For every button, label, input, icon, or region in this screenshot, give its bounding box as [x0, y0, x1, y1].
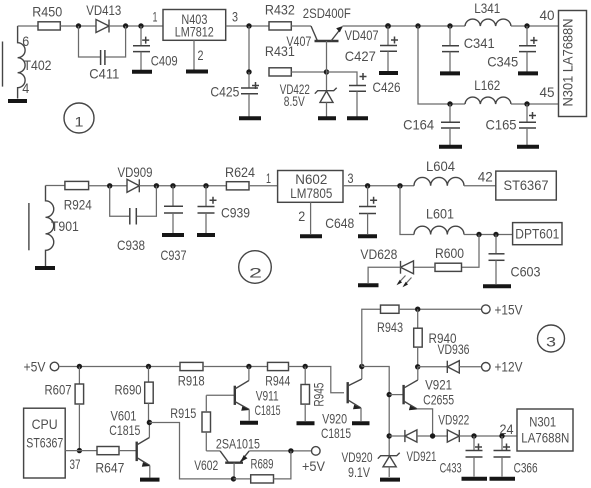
terminal +5V (left)	[50, 362, 59, 371]
svg-text:C409: C409	[151, 53, 178, 69]
svg-text:R944: R944	[265, 372, 290, 388]
wire junction to VD936	[418, 366, 448, 368]
node (V920 collector junction)	[359, 364, 364, 369]
node (V911 collector junction)	[246, 364, 251, 369]
capacitor C341	[442, 26, 459, 72]
section marker 1	[64, 103, 94, 133]
wire VD628 to ground	[368, 267, 400, 283]
svg-text:VD920: VD920	[342, 449, 373, 465]
svg-text:1: 1	[75, 114, 84, 130]
wire V407 emitter rail to N301 pin40	[343, 25, 466, 27]
resistor R944	[268, 362, 289, 370]
ground (C426)	[347, 116, 368, 120]
svg-text:1: 1	[266, 170, 271, 186]
svg-text:R607: R607	[45, 382, 72, 398]
terminal +15V	[482, 305, 491, 314]
svg-text:VD922: VD922	[438, 412, 469, 428]
node (junction C938 left)	[107, 183, 112, 188]
wire L162 to N301 pin45	[511, 103, 559, 105]
svg-text:9.1V: 9.1V	[348, 464, 370, 480]
svg-text:6: 6	[22, 33, 29, 49]
inductor L162	[465, 97, 511, 104]
capacitor C939 (electrolytic)	[198, 186, 217, 233]
svg-text:C425: C425	[210, 83, 239, 99]
node (C366 junction)	[499, 433, 504, 438]
capacitor C411 (parallel with VD413)	[79, 26, 126, 65]
svg-text:C603: C603	[511, 263, 541, 279]
transformer T901	[29, 186, 54, 267]
svg-text:R924: R924	[64, 196, 92, 212]
LED VD628	[397, 261, 414, 287]
capacitor C164	[441, 104, 460, 145]
svg-text:2: 2	[198, 47, 204, 63]
svg-text:VD407: VD407	[345, 27, 379, 43]
transistor V602 2SA1015	[220, 451, 249, 479]
diode VD921	[405, 430, 417, 442]
node (junction C938 right)	[154, 183, 159, 188]
svg-text:C939: C939	[221, 205, 250, 221]
svg-text:2SD400F: 2SD400F	[303, 5, 351, 21]
svg-text:3: 3	[546, 333, 556, 349]
node (junction C937)	[170, 183, 175, 188]
svg-text:VD628: VD628	[360, 246, 397, 262]
capacitor C409 (electrolytic)	[133, 26, 150, 70]
ground (C603)	[483, 284, 511, 288]
svg-text:CPU: CPU	[32, 416, 58, 432]
capacitor C425 (electrolytic)	[241, 72, 259, 117]
ground (VD422)	[318, 116, 336, 120]
ground (C165)	[517, 145, 539, 149]
svg-text:L162: L162	[474, 77, 500, 93]
ground (C425)	[239, 116, 261, 120]
svg-text:R450: R450	[32, 3, 62, 19]
inductor L604	[414, 177, 464, 185]
wire base junction to V921	[389, 394, 403, 396]
svg-text:24: 24	[500, 421, 514, 437]
resistor R607	[75, 367, 84, 451]
svg-text:R915: R915	[170, 405, 196, 421]
resistor R940	[414, 309, 423, 367]
block DPT601	[513, 223, 562, 245]
IC N301 LA7688N (bottom right)	[517, 409, 573, 451]
transformer T402	[3, 26, 26, 99]
capacitor C165 (electrolytic)	[519, 104, 536, 145]
node (junction R431/C425)	[246, 69, 251, 74]
svg-text:C1815: C1815	[255, 402, 281, 418]
ground (VD920)	[380, 478, 400, 482]
svg-text:V911: V911	[256, 387, 279, 403]
node (C165 junction)	[524, 101, 529, 106]
capacitor C345 (electrolytic)	[519, 26, 537, 72]
wire V602 emitter to +5V terminal	[249, 450, 311, 452]
svg-text:R690: R690	[115, 381, 142, 397]
svg-text:R918: R918	[178, 372, 205, 388]
wire VD413 to N403 pin1	[109, 25, 163, 27]
node (V407 base / VD422 / C426)	[324, 69, 329, 74]
transistor V911 C1815	[235, 367, 250, 421]
svg-text:C164: C164	[403, 116, 434, 132]
ground (T402)	[8, 99, 27, 103]
wire branch down to L162	[418, 26, 465, 104]
node (V921 base junction)	[387, 392, 392, 397]
svg-text:37: 37	[70, 456, 81, 472]
svg-text:C411: C411	[89, 66, 119, 82]
capacitor C648 (electrolytic)	[359, 186, 377, 234]
resistor R690	[145, 367, 154, 423]
svg-text:C1815: C1815	[109, 422, 140, 438]
wire node down to R431 level	[248, 26, 250, 72]
svg-text:ST6367: ST6367	[504, 177, 549, 193]
svg-text:1: 1	[153, 9, 158, 25]
svg-text:R689: R689	[251, 456, 274, 472]
node (VD920 / VD921 junction)	[387, 433, 392, 438]
svg-text:C433: C433	[440, 460, 462, 476]
svg-text:2: 2	[298, 208, 305, 224]
svg-text:N301 LA7688N: N301 LA7688N	[560, 19, 576, 107]
zener diode VD920 9.1V	[378, 453, 400, 477]
wire VD922 to N301 pin24	[459, 435, 517, 437]
capacitor C366 (electrolytic)	[494, 436, 511, 477]
wire T901 to R924	[46, 185, 65, 187]
node (junction R600 feed)	[476, 232, 481, 237]
svg-text:VD936: VD936	[438, 341, 470, 357]
node (R940 top junction)	[415, 307, 420, 312]
wire R924 to VD909	[89, 185, 127, 187]
node (V602 base / R689 junction)	[231, 476, 236, 481]
resistor R624	[226, 182, 249, 190]
ground (C427)	[379, 71, 398, 75]
ground (T901)	[35, 266, 55, 270]
zener diode VD422 8.5V	[315, 72, 337, 117]
node (junction C409)	[138, 23, 143, 28]
resistor R450	[38, 22, 60, 30]
ground (C937)	[162, 233, 184, 237]
ground (V601 emitter)	[140, 478, 160, 482]
svg-text:2SA1015: 2SA1015	[216, 435, 260, 451]
ground (C164)	[439, 145, 462, 149]
wire R624 to N602 pin1	[249, 185, 278, 187]
node (junction L601 branch)	[397, 183, 402, 188]
regulator N602 LM7805	[278, 171, 343, 203]
ground (N602 pin2)	[300, 234, 322, 238]
svg-text:2: 2	[249, 265, 262, 281]
svg-text:45: 45	[540, 84, 555, 100]
svg-text:C648: C648	[325, 215, 354, 231]
terminal +5V (right)	[312, 447, 321, 456]
resistor R918	[180, 362, 203, 370]
svg-text:N301: N301	[529, 414, 556, 430]
capacitor C433 (electrolytic)	[466, 436, 483, 477]
svg-text:C345: C345	[487, 53, 518, 69]
wire L604 to ST6367	[464, 185, 496, 187]
wire R431 to V407 base node	[291, 71, 326, 73]
wire R600 to VD628	[414, 266, 436, 268]
wire N602 pin3 to L604	[343, 185, 414, 187]
ground (VD628)	[358, 283, 379, 287]
transistor V601 C1815	[137, 423, 151, 478]
wire L341 to N301 pin40	[511, 25, 559, 27]
IC N301 LA7688N (rotated box, top right)	[559, 11, 587, 117]
resistor R945 (rotated label)	[301, 367, 310, 422]
svg-text:L601: L601	[426, 205, 454, 221]
capacitor C603	[489, 235, 505, 285]
svg-text:VD921: VD921	[407, 448, 437, 464]
svg-text:C366: C366	[514, 460, 538, 476]
svg-text:V602: V602	[194, 457, 218, 473]
ground (C409)	[132, 70, 152, 74]
svg-text:+5V: +5V	[24, 359, 47, 375]
wire VD921 to V921 emitter node	[417, 435, 447, 437]
capacitor C938 (parallel with VD909)	[110, 186, 157, 225]
wire R450 to VD413 anode	[60, 25, 96, 27]
resistor R689	[234, 451, 291, 483]
node (junction VD413/C411)	[123, 23, 128, 28]
block CPU ST6367	[24, 408, 66, 478]
wire N403 pin2 to ground	[193, 40, 195, 69]
svg-text:VD413: VD413	[86, 2, 121, 18]
node (junction C648)	[365, 183, 370, 188]
node (R607 top)	[77, 364, 82, 369]
wire V920 collector up to R943	[362, 309, 381, 366]
capacitor C427 (electrolytic) label VD407	[380, 26, 398, 71]
resistor R924	[65, 181, 89, 189]
section marker 3	[538, 325, 565, 352]
resistor R915	[202, 395, 235, 451]
svg-text:DPT601: DPT601	[515, 226, 559, 242]
svg-text:8.5V: 8.5V	[284, 93, 305, 109]
wire R943 to +15V	[399, 308, 482, 310]
ground (C366)	[490, 477, 516, 481]
svg-text:R943: R943	[377, 319, 403, 335]
svg-text:3: 3	[232, 9, 238, 25]
resistor R647	[97, 447, 119, 455]
node (C164 junction)	[447, 101, 452, 106]
svg-text:V921: V921	[425, 377, 452, 393]
node (R945 top)	[303, 364, 308, 369]
ground (C433)	[462, 477, 488, 481]
wire VD936 to +12V	[459, 366, 481, 368]
inductor L341	[465, 19, 511, 26]
ground (V911 emitter)	[240, 421, 258, 425]
svg-text:C427: C427	[345, 48, 376, 64]
wire N602 pin2 to ground	[310, 202, 312, 234]
inductor L601	[414, 226, 464, 234]
transistor V407 2SD400F	[311, 26, 343, 72]
diode VD936	[447, 361, 459, 373]
wire CPU pin37 to R647	[65, 450, 97, 452]
ground (V920 emitter)	[352, 421, 370, 425]
wire VD921 line	[389, 435, 405, 437]
svg-text:R945: R945	[311, 382, 327, 406]
svg-text:4: 4	[22, 80, 29, 96]
svg-text:L604: L604	[426, 158, 455, 174]
svg-text:LM7805: LM7805	[290, 185, 332, 201]
svg-text:R624: R624	[225, 164, 255, 180]
svg-text:VD909: VD909	[118, 164, 153, 180]
ground (C939)	[197, 233, 215, 237]
section marker 2	[239, 251, 272, 284]
node (C433 junction)	[471, 433, 476, 438]
svg-text:R600: R600	[435, 245, 464, 261]
node (V601 collector junction)	[147, 420, 152, 425]
ground (C648)	[358, 234, 377, 238]
node (C341 junction)	[447, 23, 452, 28]
svg-text:R647: R647	[95, 460, 124, 476]
resistor R432	[269, 22, 291, 30]
svg-text:ST6367: ST6367	[26, 434, 63, 450]
node (C345 junction)	[524, 23, 529, 28]
ground (R945)	[297, 421, 315, 425]
svg-text:C1815: C1815	[321, 425, 351, 441]
wire L601 to DPT601	[464, 234, 513, 236]
resistor R600	[435, 263, 462, 271]
svg-text:T402: T402	[24, 57, 52, 73]
node (CPU pin37 junction)	[77, 448, 82, 453]
node (junction at 12V rail)	[246, 23, 251, 28]
node (junction C939)	[203, 183, 208, 188]
svg-text:42: 42	[478, 169, 493, 185]
wire V601 collector to V602 base node	[149, 423, 233, 479]
wire V920 collector node to VD920 branch	[362, 367, 389, 457]
svg-text:LA7688N: LA7688N	[521, 430, 569, 446]
wire +5V rail	[59, 366, 180, 368]
wire R432 to V407 collector	[291, 25, 311, 27]
svg-text:C165: C165	[486, 116, 517, 132]
wire VD909 to R624	[139, 185, 226, 187]
ground (C341)	[440, 71, 460, 75]
svg-text:T901: T901	[51, 218, 79, 234]
node (C427 junction)	[385, 23, 391, 29]
wire R647 to V601 base	[119, 450, 136, 452]
transistor V921 C2655	[404, 367, 433, 436]
svg-text:40: 40	[540, 7, 555, 23]
diode VD413	[96, 20, 109, 33]
svg-text:C341: C341	[464, 35, 495, 51]
wire R918 to R944	[203, 366, 268, 368]
wire R944 to V920 base corner	[289, 367, 345, 393]
terminal +12V	[482, 363, 491, 372]
resistor R431	[269, 68, 291, 76]
node (V921 emitter junction)	[430, 433, 435, 438]
wire R600 node up to L601 line	[462, 235, 480, 268]
ground (N403 pin2)	[186, 70, 208, 74]
node (V921 collector / VD936 junction)	[415, 364, 420, 369]
block ST6367	[496, 171, 557, 200]
wire branch down to L601	[400, 186, 414, 235]
svg-text:C426: C426	[373, 79, 401, 95]
transistor V920 C1815	[348, 367, 362, 422]
diode VD922	[447, 430, 459, 442]
ground (C345)	[518, 71, 538, 75]
node (R689 top junction)	[288, 448, 293, 453]
node (junction R450/C411)	[76, 23, 81, 28]
wire T402 to R450	[18, 25, 38, 27]
svg-text:R432: R432	[265, 1, 295, 17]
wire N403 pin3 to R432	[226, 25, 269, 27]
node (R690 top)	[146, 364, 151, 369]
capacitor C426 (electrolytic)	[327, 72, 367, 117]
svg-text:C938: C938	[117, 237, 145, 253]
svg-text:C937: C937	[161, 247, 187, 263]
resistor R943	[381, 305, 400, 313]
svg-text:+12V: +12V	[495, 358, 524, 374]
svg-text:3: 3	[348, 170, 354, 186]
svg-text:V407: V407	[286, 33, 311, 49]
svg-text:+15V: +15V	[495, 302, 524, 318]
node (junction C603)	[493, 232, 498, 237]
regulator N403 LM7812	[163, 10, 226, 41]
svg-text:L341: L341	[474, 0, 500, 16]
capacitor C937	[164, 186, 183, 233]
svg-text:C2655: C2655	[423, 391, 454, 407]
node (L162 branch junction)	[415, 23, 420, 28]
diode VD909	[127, 179, 139, 192]
svg-text:+5V: +5V	[302, 458, 326, 474]
svg-text:LM7812: LM7812	[175, 24, 214, 40]
